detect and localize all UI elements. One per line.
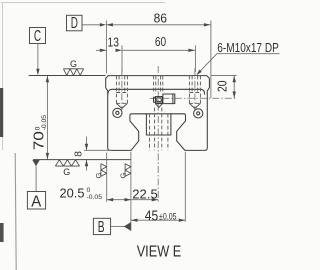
svg-text:70: 70 [31,131,47,150]
svg-text:45: 45 [145,209,158,225]
grease passage hidden lines [155,108,162,151]
dim 45 [131,209,185,225]
dim 22.5 [131,186,158,201]
left counterbore circle [113,108,122,117]
roughness G on groove face ext [118,164,131,179]
scan line bottom-left [15,153,16,270]
svg-text:C: C [34,28,41,45]
datum B box [93,218,110,236]
dim 20 right [211,76,237,98]
svg-text:22.5: 22.5 [132,186,158,201]
datum A box [27,192,45,211]
svg-text:8: 8 [72,151,84,157]
left tapped hole M10 [116,76,127,109]
svg-text:60: 60 [155,35,166,49]
svg-text:G: G [63,167,70,177]
roughness G on left face ext [94,164,107,179]
dim 20.5 [60,185,132,201]
datum B symbol [111,222,131,230]
ext line left face [106,153,108,202]
center tapped hole [154,76,163,94]
svg-text:G: G [94,173,103,179]
dim 70 left [31,76,49,160]
ext line groove right face [184,152,186,222]
end plate inner line [108,89,205,94]
center hole centerline [157,66,159,204]
tongue hidden lines [150,114,168,150]
label 6-M10x17 DP [196,40,279,75]
right counterbore circle [194,109,203,118]
block outline (flange + body) [106,76,210,151]
dim 60 [116,35,196,72]
svg-text:20.5: 20.5 [60,185,85,200]
groove center tongue [146,114,171,135]
datum C leader [36,44,39,76]
svg-text:6-M10x17 DP: 6-M10x17 DP [217,40,278,55]
scan border top [1,2,165,4]
dim 86 [106,11,210,98]
scan smudge left upper [0,88,3,137]
right hole centerline [194,68,196,110]
dim 13 [96,36,119,52]
svg-text:B: B [98,219,105,236]
dim 8 [72,137,112,171]
svg-text:20: 20 [215,80,229,92]
datum D leader [82,23,106,26]
roughness symbol bottom G [55,160,79,177]
grease nipple [154,94,175,107]
datum C box [30,28,46,46]
svg-text:13: 13 [108,36,120,50]
right tapped hole M10 [189,76,200,109]
svg-text:-0.05: -0.05 [41,115,48,131]
scan border left [2,3,4,151]
grease nipple centerline [150,97,237,99]
datum D box [67,15,83,32]
svg-text:G: G [70,59,77,69]
datum A symbol [32,160,40,192]
datum line bottom [33,159,131,161]
roughness symbol top G [63,59,83,75]
svg-text:G: G [118,173,127,179]
ext line groove left face [130,152,132,231]
svg-text:86: 86 [154,11,167,26]
svg-text:VIEW E: VIEW E [137,243,182,260]
svg-text:A: A [31,194,42,211]
svg-text:±0.05: ±0.05 [159,212,177,222]
svg-text:-0.05: -0.05 [87,194,103,201]
top surface extension line [29,75,106,77]
svg-text:D: D [71,15,78,32]
left hole centerline [121,68,123,110]
scan smudge left lower [0,223,4,242]
